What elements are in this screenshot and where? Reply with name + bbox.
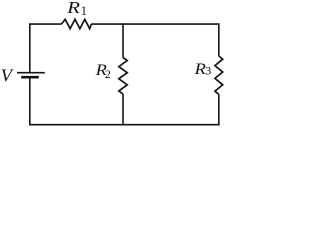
resistor R3 bbox=[215, 56, 223, 94]
label R1 bbox=[66, 0, 80, 17]
battery V positive plate bbox=[17, 72, 45, 74]
svg-text:R: R bbox=[66, 0, 80, 17]
wire top-left segment bbox=[30, 24, 62, 72]
resistor R1 bbox=[61, 19, 91, 28]
resistor R2 bbox=[119, 58, 127, 95]
label R2 bbox=[95, 61, 108, 79]
label R3 bbox=[194, 60, 207, 78]
wire bottom segment bbox=[30, 77, 220, 124]
svg-text:V: V bbox=[1, 66, 14, 86]
wire top-right segment bbox=[91, 24, 219, 56]
wire middle top lead bbox=[122, 23, 124, 57]
wire middle bottom lead bbox=[122, 94, 124, 125]
wire right bottom lead bbox=[218, 94, 220, 124]
battery V negative plate bbox=[21, 76, 39, 79]
svg-text:2: 2 bbox=[105, 67, 111, 81]
svg-text:1: 1 bbox=[81, 4, 87, 18]
svg-text:3: 3 bbox=[205, 64, 211, 78]
